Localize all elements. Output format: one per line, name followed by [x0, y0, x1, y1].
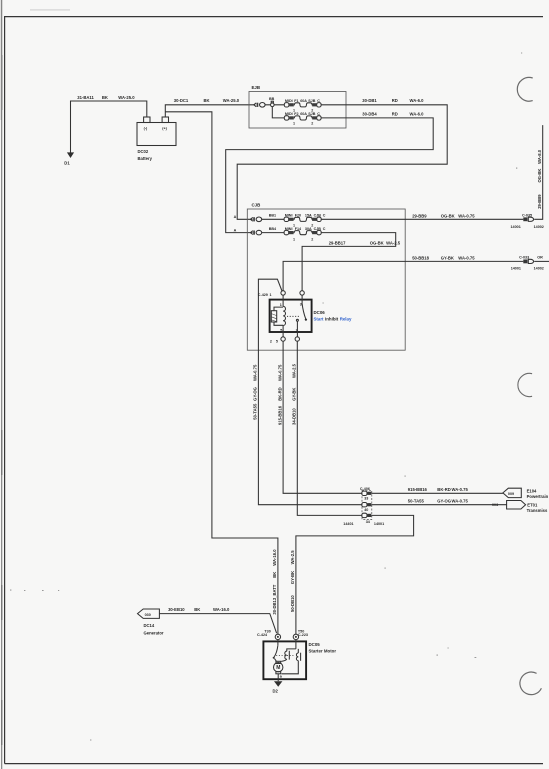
svg-text:14002: 14002: [534, 225, 544, 229]
svg-text:30-DB4: 30-DB4: [362, 111, 377, 116]
connector pin A (BB4 row entrance): [234, 228, 285, 235]
svg-text:DC05: DC05: [309, 642, 321, 647]
svg-text:C-035: C-035: [522, 213, 532, 217]
svg-text:M: M: [276, 665, 280, 671]
wire 30-EB10 generator to starter T30: [159, 607, 276, 633]
svg-text:GY-OG: GY-OG: [437, 498, 451, 503]
svg-text:30A: 30A: [305, 227, 312, 231]
svg-text:C-424: C-424: [257, 633, 268, 637]
relay pin 3: [300, 291, 304, 295]
svg-text:BK: BK: [194, 607, 200, 612]
svg-text:OG-BK: OG-BK: [441, 213, 455, 218]
fuse F20 15A (CJB BB1): [269, 214, 326, 228]
svg-text:3: 3: [300, 303, 302, 307]
EJB box: [249, 85, 346, 128]
svg-text:SJB: SJB: [308, 112, 316, 116]
svg-text:5: 5: [280, 328, 282, 332]
svg-text:WA-0.75: WA-0.75: [253, 364, 258, 381]
svg-text:F2: F2: [294, 112, 298, 116]
wire 34-DB10 relay pin5 to C-406 pin 34: [292, 341, 362, 515]
svg-text:OG-BK: OG-BK: [537, 169, 542, 183]
svg-text:Battery: Battery: [138, 156, 153, 161]
svg-text:GY-BK: GY-BK: [292, 388, 297, 401]
svg-text:1: 1: [270, 293, 272, 297]
ground D1: [64, 152, 74, 165]
svg-text:OG-BK: OG-BK: [370, 240, 384, 245]
relay DC06 Start Inhibit Relay: [270, 300, 352, 332]
starter solenoid windings: [281, 640, 300, 674]
relay coil: [283, 295, 285, 337]
svg-text:WA-2.5: WA-2.5: [386, 240, 401, 245]
svg-text:14401: 14401: [343, 522, 353, 526]
relay pin 2: [281, 337, 285, 341]
svg-text:OR: OR: [537, 256, 543, 260]
svg-text:30-DC1: 30-DC1: [174, 98, 189, 103]
punch hole middle: [518, 373, 532, 396]
svg-text:DC14: DC14: [144, 623, 155, 628]
CJB box: [247, 203, 405, 351]
svg-text:WA-2.5: WA-2.5: [290, 550, 295, 565]
connector L at EJB entrance: [254, 103, 265, 108]
svg-text:BK: BK: [102, 95, 108, 100]
svg-text:C-429: C-429: [258, 293, 268, 297]
svg-text:915-BB16: 915-BB16: [408, 487, 428, 492]
svg-text:BK: BK: [204, 98, 210, 103]
svg-text:60A: 60A: [300, 112, 307, 116]
fuse F2 60A (EJB): [284, 112, 346, 126]
relay switch blade: [296, 295, 307, 337]
starter switch blade: [273, 640, 278, 662]
relay dotted actuator line: [287, 315, 300, 317]
svg-text:29-BB9: 29-BB9: [537, 194, 542, 209]
svg-text:15A: 15A: [305, 214, 312, 218]
svg-text:D2: D2: [273, 688, 279, 693]
wire battery cable 30-DB13 BATT to starter: [165, 112, 278, 635]
svg-text:003: 003: [492, 503, 498, 507]
svg-text:MINI: MINI: [285, 227, 293, 231]
svg-text:SJB: SJB: [308, 99, 316, 103]
svg-text:BB4: BB4: [269, 227, 277, 231]
punch hole bottom: [520, 672, 541, 695]
fuse F14 30A (CJB BB4): [269, 227, 326, 241]
connector C-035: [511, 213, 544, 229]
svg-text:C-033: C-033: [519, 256, 529, 260]
svg-text:5: 5: [276, 340, 278, 344]
svg-text:F14: F14: [295, 227, 302, 231]
ground D2: [273, 681, 283, 693]
svg-text:Starter Motor: Starter Motor: [309, 648, 337, 653]
svg-text:14001: 14001: [511, 266, 521, 270]
battery DC02: [137, 117, 176, 161]
svg-text:C: C: [323, 214, 326, 218]
punch hole top: [517, 77, 532, 101]
svg-text:WA-6.0: WA-6.0: [410, 98, 425, 103]
off-page connector E104 Powertrain: [503, 488, 549, 499]
svg-text:BB1: BB1: [269, 214, 276, 218]
fuse F1 60A (EJB): [284, 99, 346, 113]
starter motor DC05 box: [263, 641, 336, 679]
svg-text:C-223: C-223: [298, 633, 308, 637]
svg-text:MINI: MINI: [285, 214, 293, 218]
terminal T30 C-424: [257, 629, 281, 639]
svg-text:C: C: [323, 227, 326, 231]
svg-text:WA-0.75: WA-0.75: [458, 213, 475, 218]
scan edge artifact: [1, 0, 3, 769]
svg-text:WA-0.75: WA-0.75: [458, 255, 475, 260]
starter dotted actuator line: [276, 655, 294, 657]
svg-text:29-BB17: 29-BB17: [329, 240, 346, 245]
svg-text:50-TA55: 50-TA55: [253, 403, 258, 420]
svg-text:2: 2: [311, 237, 313, 241]
svg-text:WA-0.75: WA-0.75: [452, 498, 469, 503]
svg-text:1: 1: [293, 237, 295, 241]
svg-text:60A: 60A: [300, 99, 307, 103]
svg-text:WA-25.0: WA-25.0: [223, 98, 240, 103]
svg-text:DC06: DC06: [314, 310, 326, 315]
wire 30-DB4 F2 output to CJB BB4: [226, 111, 434, 232]
svg-text:30-EB10: 30-EB10: [168, 607, 185, 612]
svg-text:F1: F1: [294, 99, 298, 103]
svg-text:D1: D1: [64, 161, 70, 166]
svg-text:1: 1: [280, 303, 282, 307]
svg-text:StartInhibitRelay: StartInhibitRelay: [314, 317, 352, 322]
svg-text:030: 030: [145, 613, 151, 617]
wire 50-DB10 C-406 pin34 to starter T50: [290, 515, 414, 634]
svg-text:2: 2: [311, 122, 313, 126]
svg-text:2: 2: [270, 340, 272, 344]
svg-text:WA-2.5: WA-2.5: [292, 363, 297, 378]
svg-text:A: A: [234, 228, 237, 232]
svg-text:30-DB1: 30-DB1: [362, 98, 377, 103]
svg-text:CJB: CJB: [314, 227, 322, 231]
svg-text:MIDI: MIDI: [285, 112, 293, 116]
svg-text:14002: 14002: [534, 266, 544, 270]
svg-text:50-BB18: 50-BB18: [412, 255, 429, 260]
svg-text:RD: RD: [392, 98, 398, 103]
svg-text:009: 009: [508, 492, 514, 496]
svg-text:CJB: CJB: [314, 214, 322, 218]
relay pin numbers: [270, 303, 302, 344]
svg-text:C: C: [317, 99, 320, 103]
wire BB stud branch to F2: [272, 107, 284, 118]
svg-text:Generator: Generator: [144, 630, 164, 635]
svg-text:31-BA11: 31-BA11: [77, 95, 94, 100]
svg-text:Transmiss: Transmiss: [527, 508, 548, 513]
svg-text:GY-BK: GY-BK: [441, 255, 454, 260]
connector C-406: [343, 487, 384, 526]
svg-text:BK: BK: [272, 572, 277, 578]
svg-text:14001: 14001: [374, 522, 384, 526]
wire 915-BB16 relay pin2 to C-406 pin 33: [277, 341, 361, 493]
svg-text:915-BB16: 915-BB16: [277, 405, 282, 425]
svg-text:WA-16.0: WA-16.0: [272, 549, 277, 566]
off-page connector DC14 Generator: [138, 609, 164, 635]
svg-text:DC02: DC02: [138, 149, 149, 154]
svg-text:GY-OG: GY-OG: [253, 387, 258, 401]
off-page connector ET01 Transmission: [492, 501, 548, 513]
wire 915-BB16 C-406 to E104: [371, 487, 503, 494]
svg-text:33: 33: [364, 496, 368, 500]
wire 50-BB18 relay pin 1 to connector C-033: [283, 255, 549, 290]
svg-text:50-TA55: 50-TA55: [408, 498, 425, 503]
svg-text:EJB: EJB: [252, 85, 261, 90]
wire C-429 relay pin1 to C-406 pin 40: [253, 279, 362, 505]
svg-text:BK-RD: BK-RD: [437, 487, 451, 492]
wire 30-DB1 F1 output to CJB BB1: [237, 98, 447, 219]
svg-text:40: 40: [364, 508, 368, 512]
svg-text:WA-8.0: WA-8.0: [537, 149, 542, 164]
svg-text:29-BB9: 29-BB9: [412, 213, 427, 218]
svg-text:ET01: ET01: [527, 502, 538, 507]
svg-text:A: A: [234, 215, 237, 219]
wire 29-BB9 to connector C-035 and right edge: [321, 125, 543, 219]
svg-text:14001: 14001: [511, 225, 521, 229]
svg-text:F20: F20: [295, 214, 301, 218]
svg-text:30-DB13_BATT: 30-DB13_BATT: [272, 584, 277, 614]
svg-text:RD: RD: [392, 111, 398, 116]
wire 29-BB17 to relay pin 3: [302, 233, 401, 291]
svg-text:BB: BB: [269, 97, 275, 101]
svg-text:WA-25.0: WA-25.0: [118, 95, 135, 100]
svg-text:WA-0.75: WA-0.75: [277, 364, 282, 381]
svg-text:Powertrain: Powertrain: [527, 494, 549, 499]
connector C-033: [511, 256, 544, 271]
svg-text:WA-16.0: WA-16.0: [213, 607, 230, 612]
svg-text:34-DB10: 34-DB10: [292, 408, 297, 425]
wire 30-DC1 battery positive to EJB: [165, 98, 255, 117]
svg-text:WA-6.0: WA-6.0: [410, 111, 425, 116]
svg-text:50-DB10: 50-DB10: [290, 595, 295, 612]
svg-text:1: 1: [293, 122, 295, 126]
svg-text:(+): (+): [162, 127, 167, 131]
relay pin 5: [295, 337, 299, 341]
starter motor M: [274, 661, 283, 681]
wire 31-BA11 battery negative to ground: [71, 95, 147, 152]
svg-text:GY-BK: GY-BK: [290, 571, 295, 584]
svg-text:CJB: CJB: [252, 203, 261, 208]
svg-text:WA-0.75: WA-0.75: [452, 487, 469, 492]
svg-text:C: C: [317, 112, 320, 116]
relay resistor (parallel): [271, 307, 283, 325]
node BB stud: [265, 97, 284, 106]
connector pin A (BB1 row entrance): [234, 215, 285, 222]
wire 50-TA55 C-406 to ET01: [371, 498, 506, 504]
svg-text:BK-RD: BK-RD: [277, 387, 282, 401]
svg-text:MIDI: MIDI: [285, 99, 293, 103]
terminal T50 C-223: [293, 629, 308, 639]
relay pin 1: [281, 291, 285, 295]
